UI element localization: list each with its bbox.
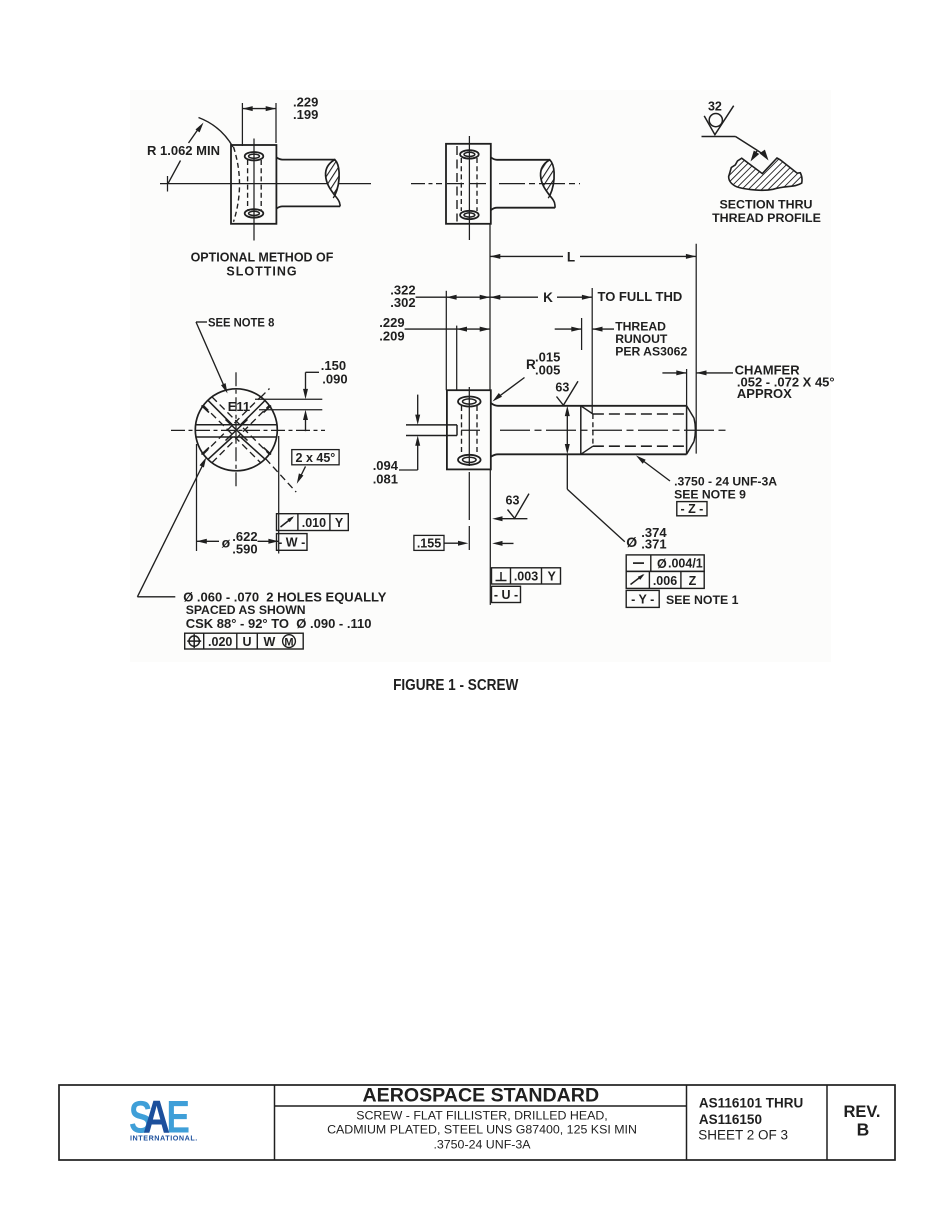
svg-text:AEROSPACE STANDARD: AEROSPACE STANDARD (363, 1085, 600, 1107)
svg-text:M: M (284, 637, 293, 649)
svg-text:SEE NOTE 1: SEE NOTE 1 (666, 593, 739, 607)
svg-text:FIGURE 1 - SCREW: FIGURE 1 - SCREW (393, 677, 518, 694)
svg-text:CSK 88° - 92° TO Ø .090 - .11: CSK 88° - 92° TO Ø .090 - .110 (186, 616, 372, 631)
svg-text:.004/1: .004/1 (668, 557, 703, 571)
svg-text:.003: .003 (514, 570, 538, 584)
svg-text:Ø: Ø (657, 557, 667, 571)
svg-text:SCREW - FLAT FILLISTER, DRILLE: SCREW - FLAT FILLISTER, DRILLED HEAD, (356, 1109, 608, 1123)
svg-text:SHEET 2 OF 3: SHEET 2 OF 3 (698, 1128, 788, 1143)
svg-text:AS116101 THRU: AS116101 THRU (699, 1095, 803, 1110)
svg-text:.199: .199 (293, 107, 318, 122)
svg-text:SEE NOTE 9: SEE NOTE 9 (674, 488, 746, 502)
svg-text:- Y -: - Y - (631, 593, 654, 607)
svg-text:63: 63 (506, 494, 520, 508)
svg-text:E11: E11 (228, 399, 250, 414)
svg-text:- U -: - U - (494, 588, 518, 602)
svg-text:INTERNATIONAL.: INTERNATIONAL. (130, 1133, 198, 1142)
svg-text:63: 63 (555, 381, 569, 395)
svg-text:.090: .090 (322, 371, 347, 386)
svg-text:TO FULL THD: TO FULL THD (598, 289, 683, 304)
svg-text:B: B (857, 1119, 870, 1139)
svg-text:AS116150: AS116150 (699, 1112, 762, 1127)
svg-text:32: 32 (708, 99, 722, 113)
svg-text:PER AS3062: PER AS3062 (615, 345, 687, 359)
svg-text:W: W (264, 635, 276, 649)
svg-text:APPROX: APPROX (737, 386, 792, 401)
svg-text:.3750-24 UNF-3A: .3750-24 UNF-3A (433, 1138, 531, 1152)
svg-text:2 x 45°: 2 x 45° (296, 451, 336, 465)
svg-text:U: U (242, 635, 251, 649)
svg-text:Y: Y (335, 516, 344, 530)
svg-text:.081: .081 (373, 471, 398, 486)
svg-text:.020: .020 (208, 635, 232, 649)
svg-text:.005: .005 (535, 363, 560, 378)
svg-text:.371: .371 (641, 536, 666, 551)
svg-text:R 1.062 MIN: R 1.062 MIN (147, 143, 220, 158)
svg-text:L: L (567, 250, 575, 265)
svg-text:Z: Z (689, 574, 697, 588)
svg-text:ø: ø (222, 534, 231, 550)
svg-text:.302: .302 (390, 295, 415, 310)
svg-text:.006: .006 (653, 574, 677, 588)
svg-text:OPTIONAL METHOD OF: OPTIONAL METHOD OF (191, 251, 334, 265)
svg-text:- Z -: - Z - (680, 502, 703, 516)
svg-text:Y: Y (548, 570, 557, 584)
svg-text:Ø: Ø (626, 534, 637, 550)
svg-text:REV.: REV. (844, 1103, 881, 1121)
svg-text:CADMIUM PLATED, STEEL UNS G874: CADMIUM PLATED, STEEL UNS G87400, 125 KS… (327, 1123, 637, 1137)
svg-text:THREAD PROFILE: THREAD PROFILE (712, 211, 821, 225)
svg-text:- W -: - W - (278, 536, 305, 550)
svg-text:.010: .010 (302, 516, 326, 530)
svg-text:SLOTTING: SLOTTING (226, 265, 297, 279)
svg-text:.3750 - 24 UNF-3A: .3750 - 24 UNF-3A (674, 474, 777, 488)
svg-text:.155: .155 (417, 536, 441, 550)
svg-text:.590: .590 (232, 541, 257, 556)
svg-text:SEE NOTE 8: SEE NOTE 8 (208, 316, 275, 329)
svg-text:SECTION THRU: SECTION THRU (720, 198, 813, 212)
svg-text:.209: .209 (379, 328, 404, 343)
svg-text:K: K (543, 290, 553, 305)
